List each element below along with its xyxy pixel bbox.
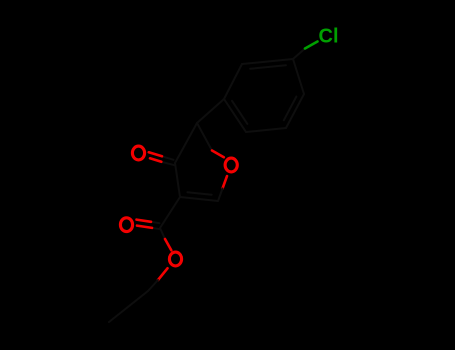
ketone C3=O double bond line B oxygen half (red) bbox=[150, 158, 161, 162]
ketone C3=O double bond line B carbon half bbox=[161, 162, 174, 165]
bond C2-O1 oxygen half (red) bbox=[212, 151, 224, 158]
ketone C3=O double bond line A oxygen half (red) bbox=[149, 152, 162, 156]
atom label O (ester oxygen) bbox=[169, 252, 181, 266]
atom label O1 (ring oxygen) bbox=[225, 158, 237, 172]
atom label O (ester carbonyl oxygen) bbox=[120, 218, 132, 232]
ester C=O double bond line B oxygen half (red) bbox=[137, 226, 152, 228]
bond C3-C4 bbox=[175, 163, 180, 197]
svg-text:Cl: Cl bbox=[319, 26, 339, 48]
bond BL-ipso inner (double) bbox=[232, 101, 247, 124]
bond E1-Oe2 oxygen half (red) bbox=[165, 239, 171, 250]
bond CH2-CH3 bbox=[109, 291, 148, 322]
bond C4-C5 inner (double) bbox=[187, 192, 211, 195]
bond O1-C5 oxygen half (red) bbox=[223, 176, 228, 188]
bond C4-E1 bbox=[160, 197, 180, 228]
bond E1-Oe2 carbon half bbox=[160, 228, 165, 239]
bond ipso-TL bbox=[224, 64, 242, 99]
bond BR-BL bbox=[246, 128, 286, 132]
bond R-BR bbox=[286, 94, 304, 128]
bond TL-TR bbox=[242, 59, 293, 64]
bond TL-TR inner (double) bbox=[250, 65, 286, 69]
benzene ring (4-chlorophenyl) bbox=[197, 59, 304, 132]
bond TR-Cl chlorine half (green) bbox=[305, 42, 318, 49]
bond C2-ipso (phenyl attachment) bbox=[197, 99, 224, 123]
ester C=O double bond line A oxygen half (red) bbox=[137, 220, 152, 222]
bond BL-ipso bbox=[224, 99, 246, 132]
bond O1-C5 carbon half bbox=[218, 189, 223, 202]
bond C2-C3 bbox=[175, 123, 197, 163]
bond TR-R bbox=[293, 59, 304, 94]
bond Oe2-CH2 oxygen half (red) bbox=[158, 268, 168, 280]
ketone C3=O double bond line A carbon half bbox=[162, 156, 174, 160]
bond Oe2-CH2 carbon half bbox=[148, 280, 158, 291]
bond R-BR inner (double) bbox=[284, 97, 297, 121]
bond C2-O1 carbon half bbox=[197, 123, 212, 151]
bond C4-C5 bbox=[180, 197, 218, 201]
atom label O (ketone oxygen) bbox=[132, 146, 144, 160]
ester C=O double bond line B carbon half bbox=[152, 228, 160, 229]
ester C=O double bond line A carbon half bbox=[151, 222, 160, 223]
bond TR-Cl carbon half bbox=[293, 49, 305, 60]
